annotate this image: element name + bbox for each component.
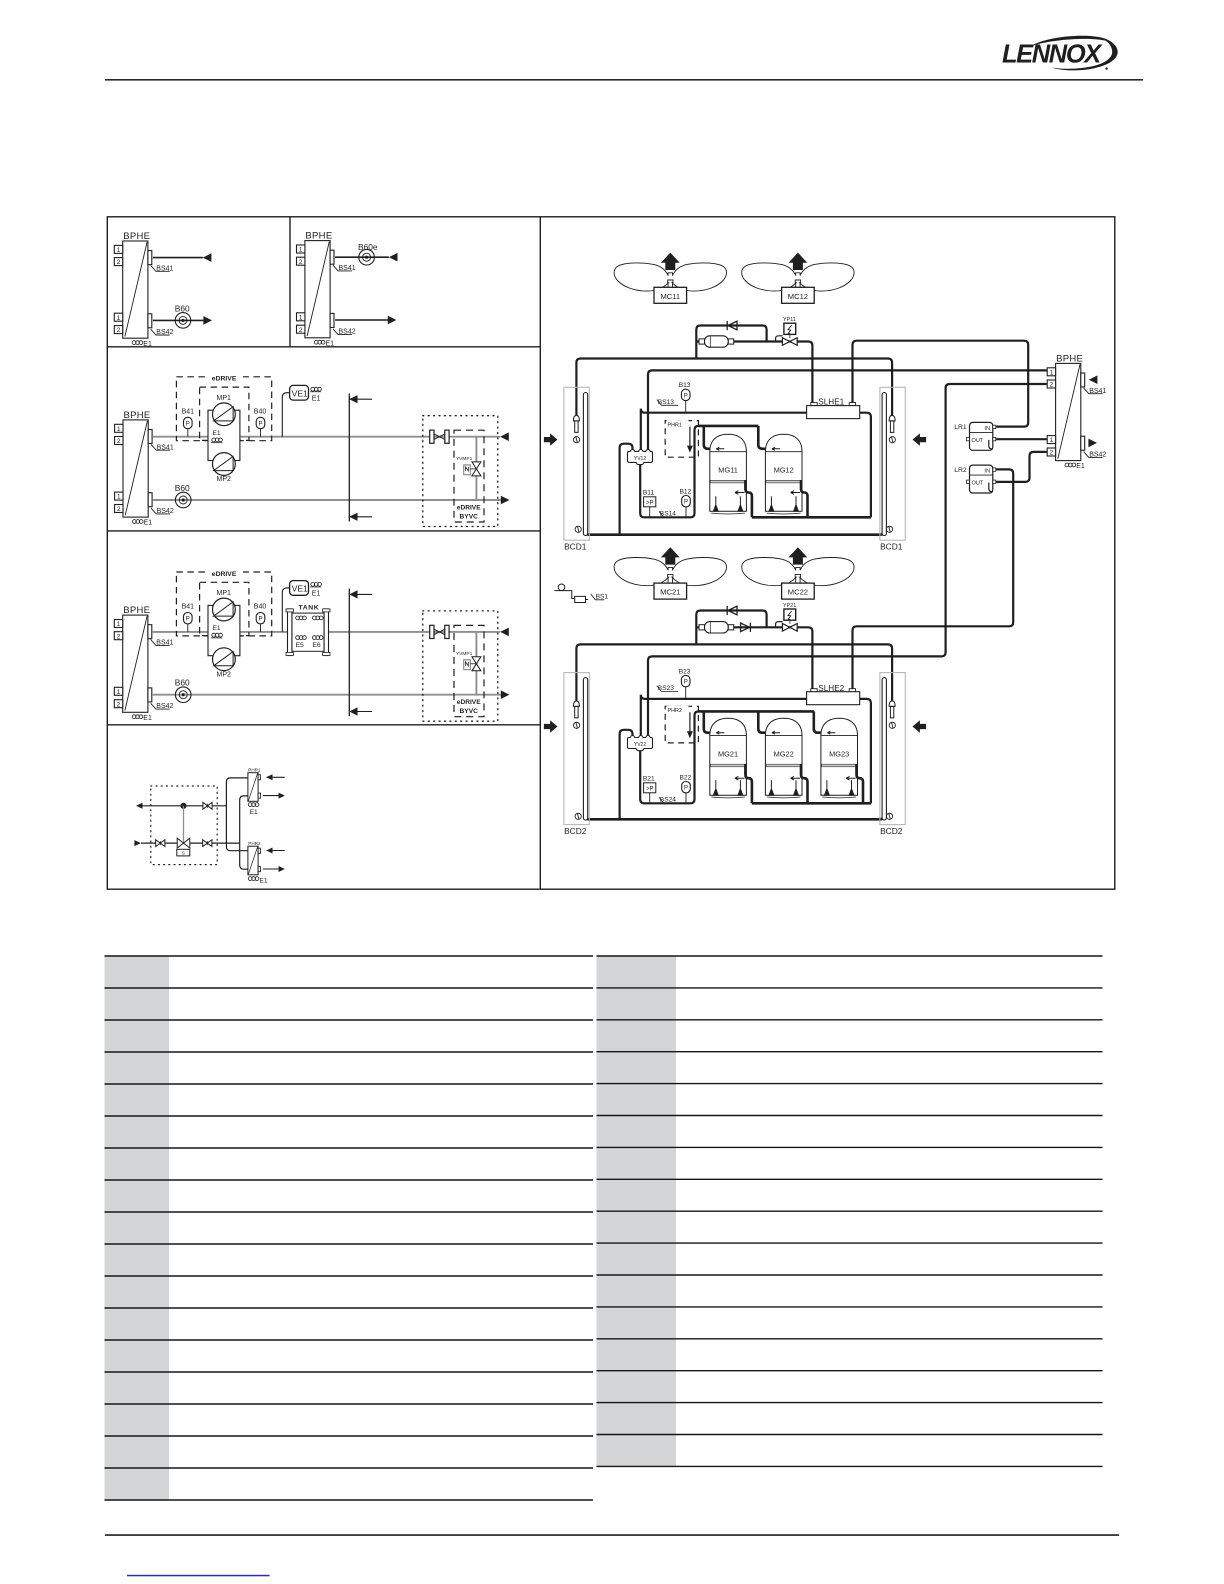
svg-text:eDRIVE: eDRIVE	[457, 504, 481, 511]
svg-text:E1: E1	[260, 877, 268, 884]
coil BCD2 right	[880, 673, 905, 825]
heat exchanger BPHE (panel 1 left)	[114, 231, 173, 348]
wire distributor header circuit 2	[576, 644, 892, 701]
receiver LR2	[967, 465, 996, 493]
wire YV loop circuit 2	[620, 730, 633, 820]
pump frame	[208, 410, 240, 460]
wire PHR1 out arrow	[263, 795, 280, 797]
svg-text:BYVC: BYVC	[460, 708, 479, 715]
wire oil/safety loop circuit 1	[640, 426, 700, 517]
economizer injection PHR1	[665, 421, 698, 458]
sensor B60	[175, 492, 191, 508]
svg-text:LR1: LR1	[954, 424, 967, 431]
heat exchanger BPHE (hydraulic module)	[115, 410, 174, 527]
wire PHR2 out arrow	[263, 868, 280, 870]
top horizontal rule	[105, 79, 1143, 81]
wire distributor header circuit 1	[576, 359, 892, 416]
svg-text:E1: E1	[213, 625, 221, 632]
sensor B40	[260, 429, 262, 437]
svg-text:MC11: MC11	[660, 292, 680, 301]
compressor MG22	[765, 718, 802, 798]
bottom horizontal rule	[105, 1534, 1119, 1536]
diagram outer frame	[107, 217, 1115, 889]
wire discharge header circuit 2	[745, 764, 871, 803]
svg-text:B60: B60	[175, 678, 190, 688]
water arrows right BPHE	[1089, 375, 1098, 384]
svg-text:B12: B12	[680, 488, 692, 495]
distributor right BCD2	[889, 701, 895, 718]
heater E1 under PHR2	[248, 877, 259, 881]
wire oil/safety loop circuit 2	[640, 711, 700, 803]
wire top with sensor B60e (panel 1 right)	[335, 256, 389, 258]
coil BCD1 right	[880, 387, 905, 540]
wire PHR1 in arrow	[267, 776, 285, 778]
legend table right half	[597, 956, 677, 1466]
panel 4 dotted enclosure	[151, 786, 217, 865]
coil BCD1 left	[564, 387, 589, 540]
svg-text:TANK: TANK	[299, 605, 320, 612]
svg-text:BS1: BS1	[596, 593, 609, 600]
section marker line with flow arrows	[349, 589, 372, 717]
sensor B11 (HP switch)	[649, 507, 651, 518]
reversing valve YV12	[628, 449, 653, 464]
wire chilled water out top (panel 1 left)	[153, 257, 203, 259]
reversing valve YV22	[628, 736, 653, 751]
wire supply pipe	[153, 436, 500, 438]
svg-text:PHR1: PHR1	[248, 768, 261, 773]
wire bottom (panel 1 right)	[335, 319, 388, 321]
bypass valve YVMP1	[475, 437, 477, 500]
svg-text:MP2: MP2	[217, 476, 232, 483]
svg-text:BCD1: BCD1	[880, 542, 903, 552]
valve panel4 bottom right	[203, 840, 212, 847]
wire LR1 out to BPHE	[996, 438, 1047, 440]
wire discharge line circuit 1	[648, 370, 1047, 451]
wire coil suction bottom line circuit 1	[586, 531, 884, 535]
svg-text:MG12: MG12	[774, 466, 794, 475]
svg-text:MG11: MG11	[718, 466, 738, 475]
heat exchanger BPHE (right condenser)	[1047, 353, 1106, 470]
wire SLHE suction line circuit 1	[641, 409, 871, 518]
svg-text:MC12: MC12	[788, 292, 808, 301]
svg-text:B22: B22	[680, 774, 692, 781]
air flow arrow in (right) circuit 1	[913, 433, 927, 445]
pump MP1	[213, 598, 236, 621]
svg-text:B21: B21	[643, 776, 655, 783]
legend table left half	[105, 956, 170, 1500]
svg-text:B23: B23	[679, 668, 691, 675]
motorised valve YVFC with actuator box	[183, 806, 185, 843]
svg-text:MP1: MP1	[217, 395, 232, 402]
svg-text:E1: E1	[312, 395, 321, 402]
svg-text:VE1: VE1	[292, 388, 308, 398]
expansion vessel VE1	[282, 393, 289, 437]
svg-text:>P: >P	[646, 500, 654, 506]
svg-text:MP1: MP1	[217, 590, 232, 597]
sensor B41	[187, 429, 189, 437]
flexible coupling	[430, 430, 449, 443]
svg-text:BS13: BS13	[658, 399, 674, 406]
expansion valve YP11	[776, 336, 783, 342]
svg-text:B40: B40	[254, 409, 267, 416]
heat exchanger BPHE (hydraulic module)	[114, 605, 173, 722]
svg-text:BYVC: BYVC	[460, 513, 479, 520]
svg-text:S: S	[182, 851, 185, 856]
pump MP2	[213, 453, 236, 476]
svg-text:E1: E1	[250, 809, 258, 816]
svg-text:YP11: YP11	[783, 317, 796, 323]
svg-text:eDRIVE: eDRIVE	[212, 571, 237, 578]
svg-text:LR2: LR2	[954, 467, 967, 474]
sensor B60e	[359, 249, 375, 265]
svg-text:BCD2: BCD2	[880, 826, 903, 836]
pump frame	[208, 605, 240, 655]
wire liquid line with check valve branch circuit 1	[696, 326, 766, 359]
svg-text:E1: E1	[312, 591, 321, 598]
valve panel4 bottom left	[156, 840, 165, 847]
eDRIVE BYVC dotted enclosure	[423, 611, 498, 721]
distributor left BCD1	[573, 415, 579, 432]
svg-text:MC21: MC21	[660, 588, 680, 597]
svg-text:E5: E5	[296, 642, 305, 649]
air flow arrow in (right) circuit 2	[913, 720, 927, 732]
footer link underline	[127, 1575, 270, 1577]
svg-text:MC22: MC22	[788, 588, 808, 597]
svg-text:MG21: MG21	[718, 749, 738, 758]
sensor B22	[685, 793, 687, 803]
svg-text:B41: B41	[182, 409, 195, 416]
svg-text:B11: B11	[643, 490, 655, 497]
compressor MG11	[710, 434, 747, 514]
sensor B60	[175, 687, 191, 703]
svg-text:LENNOX: LENNOX	[1002, 41, 1103, 69]
wire discharge header circuit 1	[745, 480, 871, 517]
svg-text:BS23: BS23	[658, 685, 674, 692]
compressor MG12	[765, 434, 802, 514]
svg-text:SLHE2: SLHE2	[818, 684, 844, 693]
economizer SLHE1	[807, 403, 860, 419]
expansion valve YP21	[776, 622, 783, 628]
junction node	[180, 803, 186, 809]
air flow arrow in (left) circuit 1	[544, 433, 558, 445]
wire SLHE suction line circuit 2	[641, 695, 871, 804]
svg-text:BCD2: BCD2	[564, 826, 587, 836]
svg-text:BCD1: BCD1	[564, 542, 587, 552]
pump MP1	[213, 403, 236, 426]
wire LR2 out to BPHE port2	[996, 452, 1047, 482]
valve panel4 top	[203, 802, 212, 809]
expansion vessel VE1	[282, 588, 289, 632]
sensor B41	[187, 624, 189, 632]
svg-text:BS24: BS24	[660, 797, 676, 804]
svg-text:YVMP1: YVMP1	[456, 456, 473, 462]
svg-text:YV12: YV12	[634, 456, 646, 462]
sensor BS1 outdoor	[558, 584, 565, 591]
svg-text:YVMP1: YVMP1	[456, 651, 473, 657]
svg-text:PHR2: PHR2	[248, 841, 261, 846]
svg-text:>P: >P	[646, 786, 654, 792]
svg-text:MG22: MG22	[774, 749, 794, 758]
air flow arrow in (left) circuit 2	[544, 720, 558, 732]
compressor MG23	[821, 718, 858, 798]
filter drier circuit 1	[699, 336, 734, 347]
svg-text:PHR1: PHR1	[668, 422, 682, 428]
sensor B12	[685, 507, 687, 517]
heater E1 under PHR1	[248, 803, 259, 807]
receiver LR1	[967, 422, 996, 450]
svg-text:YP21: YP21	[783, 603, 796, 609]
wire SLHE to receiver circuit 2	[853, 469, 1014, 688]
check valve liquid line circuit 2	[741, 623, 751, 632]
sensor B40	[260, 624, 262, 632]
coil bottom sensors BCD2	[575, 813, 581, 819]
sensor B60 (panel 1)	[175, 313, 191, 329]
fan MC11	[614, 253, 726, 291]
economizer injection PHR2	[665, 706, 698, 743]
wire chilled water in bottom (panel 1 left)	[153, 319, 204, 321]
svg-text:B60: B60	[175, 483, 190, 493]
svg-text:eDRIVE: eDRIVE	[457, 699, 481, 706]
bypass valve YVMP1	[475, 632, 477, 695]
wire return pipe	[153, 694, 501, 696]
check valve circuit 1	[727, 321, 737, 330]
svg-text:E6: E6	[312, 642, 321, 649]
distributor right BCD1	[889, 415, 895, 432]
wire riser to PHR bottoms	[240, 796, 248, 869]
flexible coupling	[430, 625, 449, 638]
fan MC21	[614, 547, 726, 585]
svg-text:MP2: MP2	[217, 671, 232, 678]
svg-text:B41: B41	[182, 604, 195, 611]
svg-text:PHR2: PHR2	[668, 708, 682, 714]
svg-text:B60e: B60e	[358, 242, 378, 252]
wire riser to PHR tops	[226, 778, 248, 851]
sensor B23 (suction pressure)	[685, 687, 687, 699]
coil BCD2 left	[564, 673, 589, 825]
sensor B13 (suction pressure)	[685, 401, 687, 413]
economizer SLHE2	[807, 689, 860, 705]
svg-text:B13: B13	[679, 382, 691, 389]
svg-text:eDRIVE: eDRIVE	[212, 376, 237, 383]
check valve circuit 2	[727, 606, 737, 615]
wire panel4 bottom pipe	[141, 842, 240, 844]
sensor B21 (HP switch)	[649, 793, 651, 804]
fan MC22	[742, 547, 854, 585]
svg-text:E1: E1	[213, 430, 221, 437]
wire panel4 top pipe	[141, 805, 226, 807]
wire discharge line circuit 2	[648, 384, 1047, 738]
pump MP2	[213, 648, 236, 671]
svg-text:SLHE1: SLHE1	[818, 398, 844, 407]
eDRIVE pump group dashed enclosure	[176, 377, 271, 441]
wire PHR2 in arrow	[267, 850, 285, 852]
wire supply pipe	[153, 631, 501, 633]
wire suction header circuit 2	[699, 711, 823, 732]
wire suction header circuit 1	[699, 426, 768, 449]
heat exchanger BPHE (panel 1 right)	[297, 231, 356, 348]
wire coil suction bottom line circuit 2	[586, 815, 884, 819]
wire liquid line with check valve branch circuit 2	[696, 611, 766, 645]
section marker line with flow arrows	[349, 394, 372, 522]
svg-text:YV22: YV22	[634, 742, 646, 748]
wire YV loop circuit 1	[620, 444, 633, 535]
distributor left BCD2	[573, 701, 579, 718]
wire SLHE to receiver circuit 1	[853, 341, 1029, 427]
svg-text:BS14: BS14	[660, 511, 676, 518]
eDRIVE BYVC dotted enclosure	[423, 416, 498, 527]
Lennox logo	[1002, 36, 1118, 71]
svg-text:MG23: MG23	[829, 749, 849, 758]
coil bottom sensors BCD1	[575, 526, 581, 532]
svg-text:B40: B40	[254, 604, 267, 611]
compressor MG21	[710, 718, 747, 798]
fan MC12	[742, 253, 854, 291]
eDRIVE pump group dashed enclosure	[176, 572, 271, 636]
wire return pipe	[153, 499, 501, 501]
filter drier circuit 2	[699, 622, 734, 633]
svg-text:B60: B60	[175, 304, 190, 314]
svg-text:VE1: VE1	[292, 584, 308, 594]
